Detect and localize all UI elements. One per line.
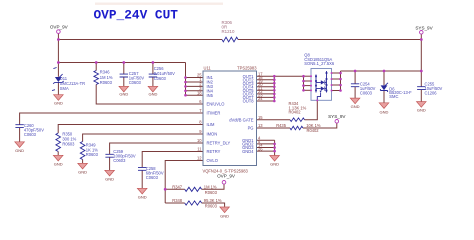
wire SYS_9V port stem down to output rail — [420, 34, 422, 71]
wire OUT8 stub — [257, 100, 275, 102]
svg-text:24: 24 — [258, 96, 263, 101]
wire Q8 source stub 4 — [304, 89, 312, 91]
svg-text:EN/UVLO: EN/UVLO — [207, 102, 225, 107]
svg-text:C0603: C0603 — [360, 90, 373, 95]
svg-text:OUT8: OUT8 — [243, 99, 255, 104]
wire R348 left segment — [165, 202, 185, 204]
ground below C258 — [137, 188, 147, 199]
wire dVdt/B_GATE line right to Q8 gate — [305, 100, 318, 119]
svg-text:C0603: C0603 — [154, 76, 167, 81]
svg-text:RETRY: RETRY — [207, 149, 221, 154]
svg-text:dVdt/B GATE: dVdt/B GATE — [229, 117, 254, 122]
svg-text:R348: R348 — [172, 198, 183, 203]
wire C257 top stem — [123, 63, 125, 74]
wire PG line left — [257, 127, 291, 129]
wire OUT1 stub — [257, 75, 275, 77]
capacitor C258 — [138, 166, 164, 180]
svg-text:SMA: SMA — [60, 86, 69, 91]
resistor R348 — [172, 198, 222, 208]
svg-text:R0603: R0603 — [100, 80, 113, 85]
svg-text:GND: GND — [351, 104, 360, 109]
svg-text:10: 10 — [197, 138, 202, 143]
wire Q8 source trunk — [303, 76, 305, 90]
wire Q8 source stub 1 — [304, 75, 312, 77]
diode D6 — [380, 83, 412, 99]
ground below D6 — [379, 103, 389, 115]
svg-text:C0603: C0603 — [113, 158, 126, 163]
Q8 pin end squares — [310, 72, 332, 101]
port OVP_9V top — [50, 24, 69, 33]
wire R350 bottom stem — [57, 152, 59, 156]
svg-text:OVP_24V CUT: OVP_24V CUT — [94, 8, 179, 23]
IN bus dots — [184, 76, 187, 79]
wire D11 cathode to ground — [57, 83, 59, 95]
Q8 mosfet body diode 2 — [321, 86, 325, 90]
GND bus dots — [273, 143, 276, 146]
ground below R349 — [78, 163, 88, 174]
wire R346 top stem — [95, 63, 97, 71]
faint top artifact — [95, 3, 223, 5]
capacitor C257 — [120, 71, 145, 85]
resistor R435 — [276, 123, 321, 133]
capacitor C256 — [149, 66, 175, 81]
wire Q8 source stub 3 — [304, 85, 312, 87]
wire RETRY_DLY line to C259 — [110, 143, 203, 154]
svg-text:OVP_9V: OVP_9V — [50, 24, 69, 29]
wire Q8 source stub 2 — [304, 80, 312, 82]
svg-text:7: 7 — [199, 108, 202, 113]
U11 left pin numbers — [197, 73, 202, 161]
svg-text:GND: GND — [78, 169, 87, 174]
wire Q8 drain stub 2 — [332, 78, 341, 80]
wire C255 top stem — [420, 71, 422, 87]
svg-text:GND: GND — [54, 101, 63, 106]
resistor R434 — [289, 101, 307, 121]
svg-text:SON5.1_27.5X6: SON5.1_27.5X6 — [304, 61, 335, 66]
wire IMON line to R349 — [83, 134, 203, 142]
ground below C257 — [119, 86, 129, 96]
wire OUT4 stub — [257, 86, 275, 88]
wire IN pin bus — [185, 63, 187, 96]
svg-text:SYS_9V: SYS_9V — [328, 114, 346, 119]
svg-text:R0603: R0603 — [86, 152, 99, 157]
svg-text:SYS_9V: SYS_9V — [415, 26, 433, 31]
Q8 internal connections — [316, 82, 327, 88]
wire D11 anode stem — [57, 63, 59, 77]
svg-text:13: 13 — [258, 123, 263, 128]
wire top rail left of R306 — [58, 39, 222, 41]
Q8 internal source bus — [315, 75, 317, 93]
svg-text:U11: U11 — [204, 66, 212, 71]
svg-text:GND: GND — [417, 108, 426, 113]
svg-text:ITIMER: ITIMER — [207, 111, 221, 116]
svg-text:C1206: C1206 — [425, 90, 438, 95]
wire C256 bottom stem — [152, 77, 154, 86]
svg-text:C0603: C0603 — [24, 132, 37, 137]
wire C258 bottom stem — [141, 171, 143, 189]
svg-text:SMC: SMC — [389, 94, 398, 99]
wire top rail right of R306 — [238, 39, 421, 41]
wire IN4 stub — [186, 90, 204, 92]
wire Q8 drain trunk — [340, 71, 342, 91]
wire IN1 stub — [186, 77, 204, 79]
svg-text:TPS25983: TPS25983 — [237, 66, 257, 71]
capacitor C255 — [417, 81, 442, 95]
wire D6 bottom stem — [383, 91, 385, 103]
diode D11 — [52, 68, 85, 92]
svg-text:GND4: GND4 — [242, 149, 254, 154]
svg-text:95.3K 1%: 95.3K 1% — [204, 198, 222, 203]
svg-text:GND: GND — [220, 214, 229, 219]
resistor R306 — [222, 20, 239, 42]
Q8 drain trunk dots — [339, 72, 342, 75]
Q8 gate path — [320, 91, 322, 93]
svg-text:1M 1%: 1M 1% — [204, 184, 217, 189]
wire GND2 stub — [257, 143, 275, 145]
ground below R350 — [53, 155, 63, 166]
wire C254 bottom stem — [354, 87, 356, 98]
svg-text:GND: GND — [54, 161, 63, 166]
wire IN5 stub — [186, 94, 204, 96]
wire RETRY line to C258 — [142, 152, 203, 168]
ground below C256 — [148, 86, 158, 96]
wire OUT3 stub — [257, 82, 275, 84]
svg-text:12: 12 — [197, 156, 202, 161]
port OVP_9V bottom — [217, 174, 236, 185]
svg-text:R1210: R1210 — [222, 29, 235, 34]
svg-text:RETRY_DLY: RETRY_DLY — [207, 141, 231, 146]
svg-text:IN5: IN5 — [207, 93, 214, 98]
wire Q8 drain stub 3 — [332, 84, 341, 86]
svg-text:R347: R347 — [172, 184, 183, 189]
svg-text:OVLO: OVLO — [207, 158, 218, 163]
svg-text:GND: GND — [119, 92, 128, 97]
wire C259 bottom stem — [109, 157, 111, 170]
port SYS_9V top — [415, 26, 433, 34]
wire GND1 stub — [257, 139, 275, 141]
svg-text:11: 11 — [197, 147, 202, 152]
U11 left pin names — [207, 75, 231, 163]
svg-text:C0603: C0603 — [129, 80, 142, 85]
wire OVP_9V port stem — [57, 33, 59, 62]
ground below C260 — [15, 142, 25, 153]
U11 right pin numbers — [258, 71, 263, 151]
wire C254 top stem — [354, 71, 356, 84]
port SYS_9V middle — [328, 114, 346, 123]
wire OUT7 stub — [257, 96, 275, 98]
svg-text:R435: R435 — [276, 123, 287, 128]
svg-text:VQFN24-0_S-TPS25983: VQFN24-0_S-TPS25983 — [203, 168, 249, 173]
svg-text:GND: GND — [270, 162, 279, 167]
wire OVP rail — [58, 62, 185, 64]
wire C256 top stem — [152, 63, 154, 74]
wire C257 bottom stem — [123, 77, 125, 86]
svg-text:ILIM: ILIM — [207, 122, 216, 127]
svg-text:18: 18 — [197, 90, 202, 95]
wire GND3 stub — [257, 147, 275, 149]
wire C260 bottom stem — [19, 128, 21, 142]
svg-text:R0402: R0402 — [289, 110, 302, 115]
Q8 internal drain bus — [326, 71, 328, 93]
svg-text:R0603: R0603 — [62, 142, 75, 147]
resistor R350 — [56, 132, 77, 152]
Q8 source trunk dots — [302, 75, 305, 78]
wire ILIM line to R350 — [58, 125, 203, 134]
svg-text:C0603: C0603 — [146, 175, 159, 180]
wire PG line right to SYS_9V port — [303, 123, 337, 128]
svg-text:R0603: R0603 — [205, 204, 218, 209]
svg-text:GND: GND — [138, 195, 147, 200]
resistor R346 — [94, 70, 113, 85]
svg-text:R0603: R0603 — [205, 190, 218, 195]
Q8 mosfet body diode 1 — [321, 80, 325, 84]
wire OVLO line — [165, 161, 203, 204]
wire C255 bottom stem — [420, 90, 422, 102]
wire OUT6 stub — [257, 93, 275, 95]
wire OUT bus feed to Q8 — [274, 75, 303, 77]
svg-text:OVP_9V: OVP_9V — [217, 174, 236, 179]
svg-text:GND: GND — [15, 148, 24, 153]
wire R349 bottom stem — [82, 160, 84, 164]
svg-text:6: 6 — [199, 99, 202, 104]
capacitor C254 — [351, 81, 376, 95]
svg-text:GND: GND — [148, 92, 157, 97]
wire GND4 stub — [257, 150, 275, 152]
ground below C254 — [350, 98, 360, 109]
svg-text:9: 9 — [199, 129, 202, 134]
wire dVdt/B_GATE line left — [257, 119, 291, 121]
wire Q8 drain stub 1 — [332, 72, 341, 74]
resistor R349 — [80, 142, 98, 160]
wire D6 top stem — [383, 71, 385, 85]
wire R347 left segment — [165, 188, 185, 190]
capacitor C259 — [105, 149, 135, 163]
wire R347 right segment to OVP_9V port — [202, 184, 224, 189]
IC U11 TPS25983 body — [203, 66, 258, 174]
svg-text:15: 15 — [258, 115, 263, 120]
wire Q8 drain stub 4 — [332, 90, 341, 92]
ground below D11 — [54, 95, 64, 106]
capacitor C260 — [15, 123, 44, 137]
svg-text:PG: PG — [248, 126, 254, 131]
wire SYS_9V output rail — [341, 70, 422, 72]
ground below C255 — [417, 102, 427, 113]
svg-text:26: 26 — [258, 146, 263, 151]
transistor Q8 CSD18511Q5A — [304, 52, 335, 100]
resistor R347 — [172, 184, 217, 194]
wire OUT2 stub — [257, 79, 275, 81]
ground below IC GND bus — [270, 156, 280, 167]
svg-text:GND: GND — [105, 176, 114, 181]
wire IN2 stub — [186, 81, 204, 83]
wire ITIMER line to C260 — [20, 113, 203, 125]
svg-text:8: 8 — [199, 120, 202, 125]
wire IN3 stub — [186, 85, 204, 87]
ground below R348 — [220, 207, 230, 219]
svg-text:IMON: IMON — [207, 132, 218, 137]
wire R346 bottom to EN/UVLO — [96, 85, 203, 105]
ground below C259 — [105, 170, 115, 181]
wire R348 right segment to ground — [202, 203, 225, 207]
svg-text:R0402: R0402 — [307, 128, 320, 133]
svg-text:GND: GND — [380, 109, 389, 114]
wire OUT5 stub — [257, 89, 275, 91]
wire GND bus — [274, 140, 276, 155]
U11 right pin names — [229, 74, 254, 154]
wire OUT bus — [273, 76, 275, 101]
OUT bus dots — [273, 75, 276, 78]
